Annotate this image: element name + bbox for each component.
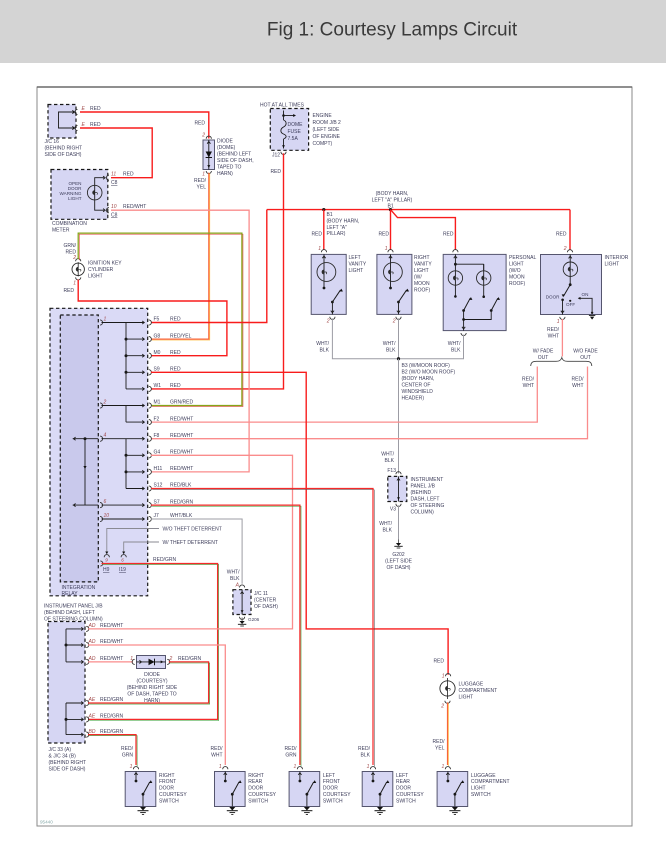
svg-text:SIDE OF DASH): SIDE OF DASH) <box>45 152 82 158</box>
svg-text:WHT/: WHT/ <box>381 452 394 458</box>
wire RED/WHT from interior light pin 1 to fade-out option split <box>561 319 563 357</box>
svg-text:DOOR: DOOR <box>323 786 338 792</box>
svg-text:G206: G206 <box>248 617 260 622</box>
chassis ground of interior light (ON position) <box>541 255 602 315</box>
svg-text:LIGHT: LIGHT <box>349 268 364 274</box>
svg-text:VANITY: VANITY <box>414 261 432 267</box>
switch right front door courtesy switch <box>125 772 156 807</box>
svg-text:9: 9 <box>105 558 108 563</box>
svg-text:GRN/: GRN/ <box>64 243 77 249</box>
svg-text:RED/: RED/ <box>572 377 585 383</box>
svg-text:2: 2 <box>392 319 396 325</box>
lamp IGNITION KEY CYLINDER LIGHT <box>77 262 79 276</box>
svg-text:G202: G202 <box>392 552 404 558</box>
svg-text:MOON: MOON <box>414 281 430 287</box>
svg-text:WHT: WHT <box>548 334 559 340</box>
svg-text:SWITCH: SWITCH <box>471 792 491 798</box>
svg-text:(W/O: (W/O <box>509 268 521 274</box>
svg-text:FRONT: FRONT <box>323 779 340 785</box>
wire WHT/BLK from splice B3 to instrument panel J/B pin F13 <box>398 359 400 474</box>
svg-text:HARN): HARN) <box>217 171 233 177</box>
option brace W/ FADE OUT vs W/O FADE OUT <box>531 358 592 366</box>
wire RED from J/C 16 pin E to dome diode pin 2 <box>80 112 209 139</box>
svg-text:G8: G8 <box>154 333 161 339</box>
svg-text:SWITCH: SWITCH <box>323 798 343 804</box>
svg-text:2: 2 <box>326 319 330 325</box>
svg-text:HOT AT ALL TIMES: HOT AT ALL TIMES <box>260 103 305 109</box>
svg-text:WHT/: WHT/ <box>379 521 392 527</box>
wire WHT/BLK from relay pin J7 to J/C 11 pin A <box>151 519 242 584</box>
wire RED/WHT from J/C 33 pin AD to courtesy diode pin 1 <box>88 661 133 663</box>
svg-text:W/O THEFT DETERRENT: W/O THEFT DETERRENT <box>163 527 222 533</box>
dome fuse 7.5A <box>283 111 285 121</box>
relay INTEGRATION RELAY <box>60 315 98 582</box>
svg-text:RED/WHT: RED/WHT <box>100 656 123 662</box>
svg-text:1: 1 <box>318 246 321 252</box>
svg-text:BLK: BLK <box>383 528 393 534</box>
svg-text:1: 1 <box>202 172 205 178</box>
svg-text:DIODE: DIODE <box>144 672 161 678</box>
svg-text:10: 10 <box>111 204 117 210</box>
svg-text:(CENTER: (CENTER <box>254 598 277 604</box>
svg-text:(BEHIND: (BEHIND <box>411 490 432 496</box>
relay coil drive circuit inside integration relay <box>73 438 99 440</box>
svg-text:& J/C 34 (B): & J/C 34 (B) <box>49 754 77 760</box>
wire RED/YEL from luggage light pin 2 to luggage light switch <box>447 703 449 766</box>
svg-text:AD: AD <box>88 639 96 645</box>
svg-text:DOOR: DOOR <box>159 786 174 792</box>
svg-text:AE: AE <box>88 697 96 703</box>
svg-text:CYLINDER: CYLINDER <box>88 267 114 273</box>
svg-text:LIGHT: LIGHT <box>459 695 474 701</box>
fuse block ENGINE ROOM J/B 2 <box>270 109 308 151</box>
node B1 (body harn, left A pillar) second splice <box>389 208 392 211</box>
svg-text:REAR: REAR <box>248 779 262 785</box>
svg-text:RED/GRN: RED/GRN <box>100 729 123 735</box>
junction block INSTRUMENT PANEL J/B (F13/V3) <box>388 476 407 501</box>
svg-text:YEL: YEL <box>197 185 207 191</box>
svg-text:METER: METER <box>52 227 70 233</box>
junction connector J/C 33 and J/C 34 <box>48 622 85 744</box>
wire RED/WHT (w/o fade out) from split to relay pin F8 <box>151 367 588 439</box>
theft deterrent option W/ THEFT DETERRENT <box>124 542 159 552</box>
svg-text:RIGHT: RIGHT <box>159 773 175 779</box>
svg-text:RED/GRN: RED/GRN <box>100 714 123 720</box>
switch luggage compartment light switch <box>437 772 468 807</box>
svg-text:PANEL J/B: PANEL J/B <box>411 484 436 490</box>
svg-text:OFF: OFF <box>566 302 575 307</box>
svg-text:V3: V3 <box>390 507 396 513</box>
svg-text:F13: F13 <box>387 468 396 474</box>
svg-text:FRONT: FRONT <box>159 779 176 785</box>
svg-text:RED/WHT: RED/WHT <box>170 450 193 456</box>
pin 9 (H9) of instrument panel J/B <box>104 555 109 558</box>
svg-text:GRN: GRN <box>285 753 297 759</box>
svg-text:RED: RED <box>311 232 322 238</box>
svg-text:1: 1 <box>367 764 370 770</box>
svg-text:DIODE: DIODE <box>217 139 234 145</box>
svg-text:OF DASH): OF DASH) <box>254 604 278 610</box>
wire RED/GRN from relay pin S7 to left front door courtesy switch <box>152 506 301 766</box>
lamp LUGGAGE COMPARTMENT LIGHT <box>446 674 451 677</box>
svg-text:RED/GRN: RED/GRN <box>100 697 123 703</box>
svg-text:1: 1 <box>219 764 222 770</box>
svg-text:COLUMN): COLUMN) <box>411 510 435 516</box>
svg-text:(LEFT SIDE: (LEFT SIDE <box>313 127 341 133</box>
pin 6 (I19) of instrument panel J/B <box>121 555 126 558</box>
switch left rear door courtesy switch <box>362 772 393 807</box>
wire GRN/RED from ignition key cylinder light pin 2 to relay pin M1 <box>79 234 243 406</box>
svg-text:SWITCH: SWITCH <box>396 798 416 804</box>
svg-text:C8: C8 <box>111 213 118 219</box>
svg-text:1: 1 <box>294 764 297 770</box>
svg-text:LIGHT: LIGHT <box>605 261 620 267</box>
svg-text:(BODY HARN,: (BODY HARN, <box>402 376 435 382</box>
relay outer pin arcs and row labels <box>149 320 152 325</box>
svg-text:VANITY: VANITY <box>349 261 367 267</box>
svg-text:1: 1 <box>557 319 560 325</box>
wire WHT/BLK from left vanity pin 2 to splice B3 <box>332 318 398 358</box>
svg-text:RED/GRN: RED/GRN <box>170 499 193 505</box>
svg-text:DOME: DOME <box>288 122 304 128</box>
diode D2 (courtesy) <box>137 656 166 669</box>
wire WHT/BLK from V3 to ground G202 <box>398 505 400 539</box>
svg-text:RED: RED <box>170 317 181 323</box>
svg-text:BLK: BLK <box>451 348 461 354</box>
svg-text:2: 2 <box>169 656 173 662</box>
svg-text:1: 1 <box>104 317 107 323</box>
svg-text:AD: AD <box>88 623 96 629</box>
svg-text:J12: J12 <box>272 153 280 159</box>
svg-text:G4: G4 <box>154 450 161 456</box>
J/C 33-34 pin arcs and labels <box>86 626 89 631</box>
svg-text:(BEHIND RIGHT: (BEHIND RIGHT <box>45 145 83 151</box>
svg-text:ROOF): ROOF) <box>509 281 525 287</box>
lamp unit PERSONAL LIGHT (w/o moon roof) <box>443 254 506 330</box>
svg-text:4: 4 <box>104 433 107 439</box>
svg-text:B1: B1 <box>327 212 333 218</box>
svg-text:RED/: RED/ <box>194 178 207 184</box>
svg-text:TAPED TO: TAPED TO <box>217 165 242 171</box>
J/C 34 internal bracket for AE/BD pins <box>65 703 67 735</box>
svg-text:2: 2 <box>201 133 205 139</box>
ground G202 (left side of dash) <box>398 540 400 544</box>
svg-text:CENTER OF: CENTER OF <box>402 383 431 389</box>
wire RED from splice B1 to right vanity light pin 1 <box>390 210 392 250</box>
svg-text:H11: H11 <box>154 466 163 472</box>
svg-text:DOOR: DOOR <box>546 294 560 299</box>
svg-text:RED/YEL: RED/YEL <box>170 333 192 339</box>
svg-text:COMBINATION: COMBINATION <box>52 221 87 227</box>
svg-text:BD: BD <box>89 729 96 735</box>
svg-text:F5: F5 <box>154 317 160 323</box>
svg-text:95440: 95440 <box>40 820 53 825</box>
svg-text:W1: W1 <box>154 383 162 389</box>
node B1 (body harn, left A pillar) first splice <box>322 208 325 211</box>
svg-text:AE: AE <box>88 714 96 720</box>
svg-text:PILLAR): PILLAR) <box>327 231 346 237</box>
svg-text:LEFT: LEFT <box>396 773 408 779</box>
svg-text:RED/WHT: RED/WHT <box>123 204 146 210</box>
svg-text:BLK: BLK <box>386 348 396 354</box>
svg-text:RED: RED <box>194 121 205 127</box>
title bar <box>0 0 666 63</box>
svg-text:RED: RED <box>63 288 74 294</box>
diode D1 (dome) <box>203 140 215 170</box>
node B3/B2 splice (body harn, center of windshield header) <box>397 357 400 360</box>
svg-text:WHT: WHT <box>572 383 583 389</box>
svg-text:6: 6 <box>104 499 107 505</box>
svg-text:INSTRUMENT: INSTRUMENT <box>411 477 444 483</box>
svg-text:RED/WHT: RED/WHT <box>100 623 123 629</box>
svg-text:B3 (W/MOON ROOF): B3 (W/MOON ROOF) <box>402 363 451 369</box>
svg-text:F8: F8 <box>154 433 160 439</box>
svg-text:LEFT "A": LEFT "A" <box>327 225 348 231</box>
svg-text:RED: RED <box>90 106 101 112</box>
svg-text:LIGHT: LIGHT <box>414 268 429 274</box>
svg-text:RED/WHT: RED/WHT <box>100 639 123 645</box>
svg-text:WHT: WHT <box>211 753 222 759</box>
wire RED from ignition key cylinder light pin 1 to relay pin M0 <box>78 280 227 356</box>
svg-text:LUGGAGE: LUGGAGE <box>459 682 484 688</box>
svg-text:LIGHT: LIGHT <box>471 786 486 792</box>
svg-text:RED: RED <box>270 169 281 175</box>
svg-text:LIGHT: LIGHT <box>509 261 524 267</box>
svg-text:7.5A: 7.5A <box>288 136 299 142</box>
svg-text:PERSONAL: PERSONAL <box>509 255 536 261</box>
svg-text:AD: AD <box>88 656 96 662</box>
svg-text:(DOME): (DOME) <box>217 145 236 151</box>
svg-text:A: A <box>235 583 240 589</box>
svg-text:BLK: BLK <box>361 753 371 759</box>
relay internal pin 6 line to S7 <box>100 503 103 508</box>
svg-text:RED: RED <box>443 232 454 238</box>
svg-text:RIGHT: RIGHT <box>248 773 264 779</box>
svg-text:COURTESY: COURTESY <box>323 792 351 798</box>
svg-text:RED/: RED/ <box>211 746 224 752</box>
svg-text:INTERIOR: INTERIOR <box>605 255 629 261</box>
svg-text:INSTRUMENT PANEL J/B: INSTRUMENT PANEL J/B <box>44 604 103 610</box>
junction connector J/C 16 <box>48 105 76 139</box>
svg-text:OF DASH, TAPED TO: OF DASH, TAPED TO <box>127 692 176 698</box>
svg-text:LEFT: LEFT <box>323 773 335 779</box>
svg-text:H9: H9 <box>103 567 110 573</box>
svg-text:SWITCH: SWITCH <box>159 798 179 804</box>
svg-text:RED: RED <box>65 250 76 256</box>
svg-text:OUT: OUT <box>538 355 549 361</box>
svg-text:LEFT: LEFT <box>349 255 361 261</box>
svg-text:WINDSHIELD: WINDSHIELD <box>402 389 434 395</box>
svg-text:REAR: REAR <box>396 779 410 785</box>
wire RED from bus to interior light pin 2 <box>569 210 571 250</box>
svg-text:LIGHT: LIGHT <box>68 196 82 201</box>
switch left front door courtesy switch <box>289 772 320 807</box>
lamp unit LEFT VANITY LIGHT <box>311 254 346 314</box>
svg-text:GRN: GRN <box>122 753 134 759</box>
svg-text:(BODY HARN,: (BODY HARN, <box>376 191 409 197</box>
svg-text:RED/WHT: RED/WHT <box>170 416 193 422</box>
wire RED/WHT from relay pin G4 to J/C 33 pin AD <box>88 455 293 629</box>
wire RED/GRN from J/C 34 pin BD to right front door courtesy switch <box>89 736 137 766</box>
svg-text:COURTESY: COURTESY <box>159 792 187 798</box>
svg-text:(BEHIND LEFT: (BEHIND LEFT <box>217 152 251 158</box>
svg-text:RED/BLK: RED/BLK <box>170 483 192 489</box>
svg-text:M1: M1 <box>154 400 161 406</box>
wire RED/GRN from courtesy diode pin 2 to J/C 34 pin AE <box>89 663 210 704</box>
svg-text:S7: S7 <box>154 499 160 505</box>
relay internal pin 1 and output bus to F5/G8/M0/S9/W1 <box>100 320 103 325</box>
svg-text:DASH, LEFT: DASH, LEFT <box>411 497 440 503</box>
wire WHT/BLK from right vanity pin 2 to splice B3 <box>398 318 400 358</box>
wire RED/BLK from relay pin S12 to left rear door courtesy switch <box>152 490 374 767</box>
svg-text:W/ FADE: W/ FADE <box>533 348 554 354</box>
junction connector J/C 11 (center of dash) <box>233 590 251 615</box>
svg-text:1: 1 <box>442 764 445 770</box>
svg-text:(BODY HARN,: (BODY HARN, <box>327 218 360 224</box>
svg-text:RED/: RED/ <box>285 746 298 752</box>
svg-text:OF DASH): OF DASH) <box>387 565 411 571</box>
svg-text:YEL: YEL <box>435 746 445 752</box>
svg-text:FUSE: FUSE <box>288 129 302 135</box>
relay internal pin for courtesy output <box>100 561 103 566</box>
svg-text:GRN/RED: GRN/RED <box>170 400 193 406</box>
J/C 33 internal bracket for AD pins <box>65 629 67 662</box>
svg-text:J/C 33 (A): J/C 33 (A) <box>49 747 72 753</box>
svg-text:RED: RED <box>123 172 134 178</box>
svg-text:2: 2 <box>563 246 567 252</box>
svg-text:DOOR: DOOR <box>248 786 263 792</box>
theft deterrent option W/O THEFT DETERRENT <box>107 529 159 552</box>
svg-text:2: 2 <box>103 400 107 406</box>
svg-text:SIDE OF DASH): SIDE OF DASH) <box>49 767 86 773</box>
wire RED/WHT (w/ fade out) from split to relay pin F2 <box>151 367 537 423</box>
switch right rear door courtesy switch <box>215 772 246 807</box>
svg-text:SWITCH: SWITCH <box>248 798 268 804</box>
svg-text:(BEHIND DASH, LEFT: (BEHIND DASH, LEFT <box>44 610 95 616</box>
relay internal pin 4 and bus to F8/G4/H11/S12 <box>100 436 103 441</box>
svg-text:ON: ON <box>582 292 589 297</box>
wire RED/WHT from combination meter pin 10 to relay pin H11 <box>111 210 249 472</box>
diagram frame <box>37 87 632 826</box>
svg-text:2: 2 <box>440 704 444 710</box>
svg-text:F2: F2 <box>154 416 160 422</box>
wire RED/YEL from dome diode pin 1 to relay pin G8 <box>152 174 210 340</box>
svg-text:RED/: RED/ <box>522 377 535 383</box>
svg-text:B2 (W/O MOON ROOF): B2 (W/O MOON ROOF) <box>402 370 456 376</box>
svg-text:INTEGRATION: INTEGRATION <box>62 585 96 591</box>
svg-text:RED/GRN: RED/GRN <box>178 656 201 662</box>
wire RED power bus along body harness <box>267 209 570 211</box>
svg-text:(COURTESY): (COURTESY) <box>136 679 167 685</box>
svg-text:Fig 1: Courtesy Lamps Circuit: Fig 1: Courtesy Lamps Circuit <box>267 20 518 41</box>
svg-text:M0: M0 <box>154 350 161 356</box>
svg-text:C8: C8 <box>111 180 118 186</box>
svg-text:RIGHT: RIGHT <box>414 255 430 261</box>
svg-text:WHT/: WHT/ <box>448 341 461 347</box>
svg-text:(LEFT SIDE: (LEFT SIDE <box>385 559 413 565</box>
junction block INSTRUMENT PANEL J/B (behind dash) <box>50 308 148 596</box>
svg-text:BLK: BLK <box>230 576 240 582</box>
svg-text:WHT/: WHT/ <box>383 341 396 347</box>
wire RED from splice B1 to left vanity light pin 1 <box>323 210 325 250</box>
svg-text:B1: B1 <box>388 204 394 210</box>
svg-text:COMPARTMENT: COMPARTMENT <box>471 779 510 785</box>
svg-text:2: 2 <box>72 255 76 261</box>
wire RED branch from bus down to relay pin F5 <box>151 210 267 323</box>
svg-text:1: 1 <box>130 764 133 770</box>
ground G206 <box>241 618 243 622</box>
svg-text:1: 1 <box>385 246 388 252</box>
svg-text:10: 10 <box>104 513 110 519</box>
svg-text:COMPARTMENT: COMPARTMENT <box>459 688 498 694</box>
svg-text:I19: I19 <box>119 567 126 573</box>
svg-text:OF STEERING: OF STEERING <box>411 503 445 509</box>
svg-text:WHT/: WHT/ <box>227 570 240 576</box>
wire RED from splice B1 to personal light pin 1 <box>391 210 456 250</box>
svg-text:RED: RED <box>170 383 181 389</box>
svg-text:COURTESY: COURTESY <box>396 792 424 798</box>
svg-text:RED: RED <box>556 232 567 238</box>
svg-text:6: 6 <box>121 558 124 563</box>
svg-text:RED/: RED/ <box>547 327 560 333</box>
svg-text:S12: S12 <box>154 483 163 489</box>
svg-text:(BEHIND RIGHT: (BEHIND RIGHT <box>49 760 87 766</box>
svg-text:COURTESY: COURTESY <box>248 792 276 798</box>
wire RED/WHT from J/C 33 pin AD to right rear door courtesy switch <box>88 645 225 765</box>
svg-text:J/C 16: J/C 16 <box>45 139 60 145</box>
svg-text:(W/: (W/ <box>414 274 422 280</box>
wire RED from J/C 16 pin E to combination meter pin 11 <box>80 128 152 178</box>
svg-text:RED: RED <box>170 350 181 356</box>
svg-text:IGNITION KEY: IGNITION KEY <box>88 261 122 267</box>
svg-text:RED: RED <box>90 122 101 128</box>
svg-text:1: 1 <box>130 656 133 662</box>
svg-text:HEADER): HEADER) <box>402 396 425 402</box>
svg-text:RED/: RED/ <box>121 746 134 752</box>
svg-text:DOOR: DOOR <box>396 786 411 792</box>
wire WHT/BLK from personal light pin to splice B3 <box>399 335 464 359</box>
svg-text:SIDE OF DASH,: SIDE OF DASH, <box>217 158 254 164</box>
svg-text:1: 1 <box>442 674 445 680</box>
svg-text:ROOF): ROOF) <box>414 287 430 293</box>
relay internal pin 10 line to J7 <box>100 516 103 521</box>
svg-text:BLK: BLK <box>320 348 330 354</box>
svg-text:RED: RED <box>378 232 389 238</box>
svg-text:RED/WHT: RED/WHT <box>170 466 193 472</box>
svg-text:RELAY: RELAY <box>62 591 79 597</box>
svg-text:1: 1 <box>73 281 76 287</box>
wire RED from dome fuse J12 to relay pin W1 <box>151 153 284 389</box>
lamp open door warning light <box>95 178 104 211</box>
svg-text:RED: RED <box>433 659 444 665</box>
indicator OPEN DOOR WARNING LIGHT (combination meter) <box>51 170 108 220</box>
svg-text:WHT: WHT <box>523 383 534 389</box>
wire RED from relay pin S9 to luggage compartment light pin 1 <box>151 372 448 675</box>
svg-text:ENGINE: ENGINE <box>313 113 333 119</box>
svg-text:RED/GRN: RED/GRN <box>153 557 176 563</box>
svg-text:COMPT): COMPT) <box>313 141 333 147</box>
svg-text:J7: J7 <box>154 513 160 519</box>
svg-text:LIGHT: LIGHT <box>88 274 103 280</box>
svg-text:OUT: OUT <box>580 355 591 361</box>
svg-text:ROOM J/B 2: ROOM J/B 2 <box>313 120 342 126</box>
svg-text:RED/: RED/ <box>358 746 371 752</box>
wire RED/GRN from relay courtesy output to J/C 33 pin AE <box>89 565 219 721</box>
svg-text:WHT/BLK: WHT/BLK <box>170 513 193 519</box>
svg-text:BLK: BLK <box>385 458 395 464</box>
svg-text:RED/: RED/ <box>433 739 446 745</box>
svg-text:(BEHIND RIGHT SIDE: (BEHIND RIGHT SIDE <box>127 685 178 691</box>
